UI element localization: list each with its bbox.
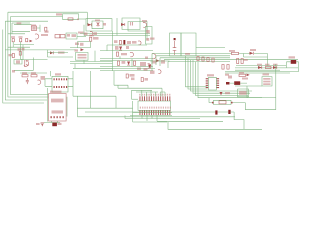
resistor R22 (116, 52, 118, 56)
wire h108.2 (77, 107, 133, 109)
transistor Q11 (158, 70, 161, 74)
label Y1 (289, 56, 296, 58)
diode D13 (30, 40, 33, 42)
wire v23 (22, 45, 24, 60)
wire h97.6 (247, 97, 276, 99)
wire u5 bdrop2 (146, 115, 148, 121)
diode D4 (250, 52, 254, 55)
wire pwr flank L (47, 88, 49, 122)
diode D11 (88, 23, 92, 26)
label U2 (55, 73, 61, 75)
transistor Q1 (35, 34, 39, 39)
label b2 t1 (75, 43, 79, 46)
wire v33.5 (33, 58, 35, 71)
label JP10 (56, 13, 62, 15)
wire h118.5 (125, 116, 200, 119)
wire long mid rail (5, 49, 75, 51)
component box pair (55, 35, 60, 38)
wire stair 3 (191, 60, 253, 91)
resistor R34 (222, 65, 224, 70)
wire h73 (20, 72, 47, 74)
wire h47.5b (196, 47, 225, 49)
wire bus L4 (164, 59, 298, 61)
component b3 p1 (161, 60, 165, 64)
wire u2 stubs left (45, 79, 52, 87)
wire v132 (131, 59, 133, 67)
wire v87 (86, 12, 88, 24)
wire h24.7 (14, 25, 40, 32)
wire box A3 (146, 27, 153, 45)
label R25 (265, 64, 270, 66)
crystal Y1 (291, 60, 297, 64)
wire h71.6 (225, 71, 299, 73)
transistor Q5 (38, 80, 41, 84)
label d20 (257, 64, 262, 66)
transistor Q2 (24, 60, 29, 67)
wire v120 (119, 56, 121, 58)
wire stair 4 (193, 60, 250, 93)
label PWR title (50, 91, 62, 93)
label c1 text (12, 70, 15, 73)
wire v95 (94, 51, 96, 62)
label c t3 (115, 46, 119, 50)
label D15 (75, 49, 79, 51)
label R13 (19, 36, 23, 38)
wire bus riser 2 (155, 56, 157, 65)
wire y2 wires (230, 82, 247, 84)
wire h60.6 (100, 60, 153, 62)
wire h122b (133, 121, 167, 123)
relay K3 body (219, 101, 226, 104)
capacitor C5 (131, 22, 133, 26)
wire bus L2 (156, 55, 230, 57)
label d1b (58, 123, 62, 125)
label R2 (41, 34, 48, 36)
wire h68.4 (113, 67, 156, 69)
diode D19 (220, 92, 223, 95)
label b3 (150, 38, 155, 40)
transistor Q7 (130, 52, 133, 57)
label U$1 (17, 22, 22, 24)
label c4 t1 (225, 74, 229, 76)
wire box q2 (14, 60, 22, 65)
wire d4 top (245, 109, 275, 111)
component pwr a (153, 61, 157, 64)
wire stair 1 (186, 56, 208, 87)
wire v117 (116, 18, 118, 36)
transistor Q10 (152, 54, 156, 59)
wire v47.5 (47, 50, 49, 57)
resistor R15 (12, 54, 14, 58)
wire h86 (235, 85, 262, 87)
label R20 (93, 37, 99, 40)
IC U2 box (52, 76, 68, 92)
wire pwr down (44, 121, 60, 123)
wire bus riser 1 (151, 54, 153, 65)
wire bus L1a (152, 53, 268, 55)
label R15 (9, 54, 13, 56)
label c t5 (122, 61, 126, 64)
relay K3 nub R (231, 102, 233, 104)
resistor R16 (22, 75, 28, 77)
wire h41.5 (78, 41, 90, 43)
component c2 p1 (131, 78, 135, 81)
wire h58.6 (100, 58, 153, 60)
wire bus riser 3 (159, 58, 161, 66)
label q10 (145, 57, 148, 59)
wire stair 6 (198, 62, 262, 98)
wire h65.6 (236, 65, 286, 67)
resistor R26 (239, 74, 246, 76)
wire box mid (66, 33, 77, 39)
wire bus L3b (244, 54, 268, 58)
component rail a (18, 48, 21, 51)
wire h52.6 (48, 52, 69, 54)
wire h111.8 (85, 111, 234, 113)
component in A3 b (146, 38, 149, 41)
transistor Q3 (97, 22, 100, 27)
wire u5 top h90 (132, 89, 153, 91)
resistor R35 (227, 65, 229, 70)
wire mid box link (77, 36, 86, 38)
wire left rail 2 (11, 17, 49, 95)
IC U3 pins right (217, 78, 220, 88)
component K2 (103, 23, 106, 26)
IC U2 pins top (54, 78, 68, 80)
label R26 (239, 72, 244, 74)
wire v90.5 (90, 41, 92, 47)
wire relay in (209, 98, 212, 103)
zener D3 (50, 51, 54, 54)
component c4 p1 (228, 76, 232, 79)
wire v77.5b (77, 96, 79, 117)
wire v277 (275, 64, 277, 110)
wire h33.5 (80, 33, 150, 35)
IC U5 inner text (140, 107, 171, 109)
IC U4 contents (263, 78, 270, 85)
resistor R4 (232, 52, 239, 54)
wire h44.6 (14, 44, 34, 46)
label bus r (185, 53, 190, 55)
label OK1 (31, 25, 36, 27)
IC U5 pins bottom (140, 110, 171, 115)
diode D23 (148, 65, 151, 69)
resistor R25 (266, 66, 272, 68)
component rail b (22, 48, 25, 51)
component pwr c (150, 71, 155, 74)
resistor R33 (212, 58, 214, 62)
IC U3 pins left (206, 78, 209, 88)
module PWR pins (51, 116, 64, 118)
component c p4 (140, 62, 146, 66)
pin nub JP10 (77, 19, 79, 21)
component c p3 (126, 46, 129, 49)
label D19 (225, 92, 230, 94)
wire h85.2 (114, 85, 128, 88)
capacitor C6 (26, 78, 29, 84)
diode D12 (121, 23, 125, 26)
wire u5 drop4 (155, 92, 157, 96)
wire h47.2 (8, 46, 30, 48)
wire u5 bdrop3 (151, 115, 153, 119)
optocoupler OK1 (32, 26, 37, 31)
wire mesh box B (92, 21, 103, 29)
wire stair 2 (188, 58, 208, 89)
resistor R5 (237, 59, 239, 64)
label in box b2 r1 (78, 54, 87, 56)
label mid row (78, 32, 84, 34)
wire u5 bdrop4 (156, 115, 158, 121)
component bar (123, 40, 125, 45)
wire v50.6 (50, 71, 52, 76)
wire u5 drop1 (141, 90, 143, 96)
wire h61.5 (70, 61, 113, 63)
wire v73r (72, 71, 74, 96)
capacitor C3 (173, 41, 177, 55)
wire h121 (157, 120, 223, 122)
label D4 (250, 49, 256, 51)
wire h115.5 (130, 115, 172, 117)
wire h99.2 (132, 98, 139, 100)
wire u2 stubs right (68, 79, 73, 87)
IC U2 pins bottom (54, 86, 68, 88)
wire v90.5 (90, 71, 92, 108)
wire h70.3 (14, 69, 34, 71)
wire h31.7 (12, 31, 30, 33)
wire h70.2 (235, 69, 280, 71)
resistor R17 (31, 75, 37, 77)
wire bus L5 (168, 61, 230, 63)
relay K3 nub L (212, 102, 214, 104)
wire v75 (74, 64, 76, 69)
label in box b2 r2 (78, 57, 87, 59)
label pwr b (144, 68, 148, 71)
resistor R20 (90, 37, 92, 41)
component in A3 a (146, 30, 150, 33)
wire v147 (146, 26, 148, 40)
wire h47.6 (70, 47, 91, 49)
diode D21 (273, 66, 277, 69)
wire top rail A (8, 11, 87, 13)
wire v84 (83, 25, 85, 36)
wire v77.5 (77, 42, 79, 49)
IC U4 box (262, 77, 272, 86)
wire h45 (107, 44, 147, 46)
crystal Y2b (226, 82, 230, 85)
label c4 t2 (242, 78, 248, 80)
wire mesh box C (122, 18, 140, 30)
resistor R23 (117, 61, 119, 65)
wire v152 (151, 61, 153, 71)
wire h70.6 (100, 70, 153, 72)
label R4 (229, 50, 235, 52)
wire v247 (246, 86, 248, 98)
wire v20 (20, 42, 22, 60)
component b2 p1 (80, 43, 84, 46)
label R28 (145, 78, 149, 81)
wire mesh box D (128, 22, 147, 32)
IC U3 box (209, 77, 217, 90)
resistor R27 (126, 74, 128, 78)
wire bottom long (168, 122, 262, 129)
wire bus L3 (160, 57, 230, 59)
wire u5 drop3 (150, 90, 152, 96)
wire box b3 (170, 33, 182, 56)
diode D20 (258, 66, 262, 69)
wire mesh box A (86, 19, 112, 31)
wire stair 5 (196, 62, 249, 96)
resistor R21 (119, 41, 121, 45)
diode D18 (156, 59, 160, 62)
wire bead jog (234, 112, 244, 129)
wire v84b (83, 60, 85, 63)
component in mid box b (72, 34, 77, 37)
label c t1 (114, 40, 118, 43)
wire h33.8 (8, 33, 25, 35)
IC U5 box (138, 101, 171, 110)
component dark d1 (52, 123, 57, 127)
label row A2a (95, 20, 100, 22)
diode D16 (119, 47, 122, 51)
label U3 (207, 74, 214, 76)
wire h21 (5, 20, 48, 22)
wire h59.5 (21, 59, 48, 61)
wire pwr flank R (66, 97, 68, 117)
label PWR row2 (52, 110, 64, 113)
transistor Q6 (138, 41, 141, 45)
diode bead D5 (215, 110, 217, 114)
resistor R12 (12, 39, 14, 42)
wire box b3 right (181, 33, 196, 56)
resistor R6 (241, 59, 243, 64)
wire h73r (225, 72, 290, 74)
wire bus riser 4 (167, 62, 169, 68)
wire h23 (12, 23, 30, 34)
resistor R36 (19, 52, 21, 56)
label c t6 (137, 68, 141, 70)
wire h88.5 (118, 88, 162, 96)
wire h112.6 (133, 112, 172, 114)
label left pair (45, 31, 49, 33)
wire left rail 3 (5, 21, 47, 100)
component in mid box a (67, 34, 70, 37)
resistor R30 (197, 57, 199, 61)
connector JP10 box (63, 14, 79, 19)
component mid row b (94, 32, 98, 35)
ground GND2 (41, 123, 45, 126)
wire h96.2 (73, 95, 116, 97)
component in q2 box (16, 60, 20, 63)
label D21 (273, 64, 278, 66)
wire h50.6 (100, 50, 153, 52)
resistor R32 (207, 58, 209, 62)
wire u5 drop5 (160, 92, 165, 96)
resistor R14 (26, 39, 28, 42)
resistor R31 (202, 57, 204, 61)
wire v116 (115, 96, 117, 108)
wire top rail B (11, 16, 63, 18)
ground GND1 (291, 72, 294, 75)
component mid row a (84, 33, 88, 36)
diode D22 (247, 74, 250, 77)
resistor R28 (141, 78, 143, 82)
diode D17 (127, 62, 130, 66)
label PWR row1 (51, 99, 64, 103)
wire h68.3 (73, 67, 113, 69)
component D14 (41, 76, 46, 80)
wire v132.6 (132, 101, 134, 122)
wire h35.5 (84, 35, 150, 37)
IC U5 pins top (140, 96, 171, 101)
label R12 (11, 36, 15, 38)
wire jp-out (79, 18, 87, 20)
resistor R1 (68, 18, 73, 20)
wire h66.6 (100, 66, 153, 68)
wire box b2 (76, 53, 89, 61)
label R20b (89, 35, 94, 37)
label R27 (130, 74, 135, 77)
wire v267 (267, 54, 269, 66)
label D3 (58, 52, 65, 54)
wire v112 tall (112, 31, 114, 71)
label R16 (22, 72, 27, 74)
transistor Q8 (148, 64, 151, 69)
label row A2b (142, 20, 147, 22)
wire u5 bdrop1 (141, 115, 143, 119)
wire left rail 1 (8, 12, 49, 97)
wire y1 wires (287, 62, 299, 72)
wire u5 top h92 (136, 91, 158, 93)
wire h61b (150, 60, 170, 62)
wire left rail 4 (3, 30, 44, 104)
wire h116.8 (78, 116, 236, 118)
wire relay out (233, 103, 246, 110)
wire v114 (113, 71, 115, 85)
label R5R6 (244, 59, 248, 61)
diode bead D6 (228, 110, 230, 114)
label gnd2 (36, 123, 40, 125)
component c p2 (127, 41, 131, 44)
diode D15 (81, 48, 84, 51)
resistor R2 (45, 27, 47, 31)
wire h67.9 (235, 67, 298, 69)
wire h63.6 (70, 63, 113, 65)
label U4 (263, 73, 270, 75)
crystal Y2 (234, 81, 240, 85)
wire box c4 (238, 89, 249, 97)
module PWR box (49, 94, 67, 122)
wire v107 (106, 45, 108, 51)
wire h57 (48, 56, 74, 58)
relay K3 box (214, 100, 232, 104)
wire v129 (117, 85, 119, 88)
wire u5 drop2 (145, 92, 147, 96)
transistor Q4 (143, 22, 147, 27)
wire v131.5 (131, 90, 133, 99)
resistor R24 (133, 61, 135, 65)
wire v13 (12, 42, 14, 47)
label c t4 (121, 53, 127, 55)
label in c4 box (239, 91, 247, 95)
label R17 (31, 72, 36, 74)
transistor Q9 (90, 31, 93, 35)
label c t2 (132, 41, 137, 44)
IC U5 pin labels (139, 94, 170, 96)
resistor R13 (20, 39, 22, 42)
